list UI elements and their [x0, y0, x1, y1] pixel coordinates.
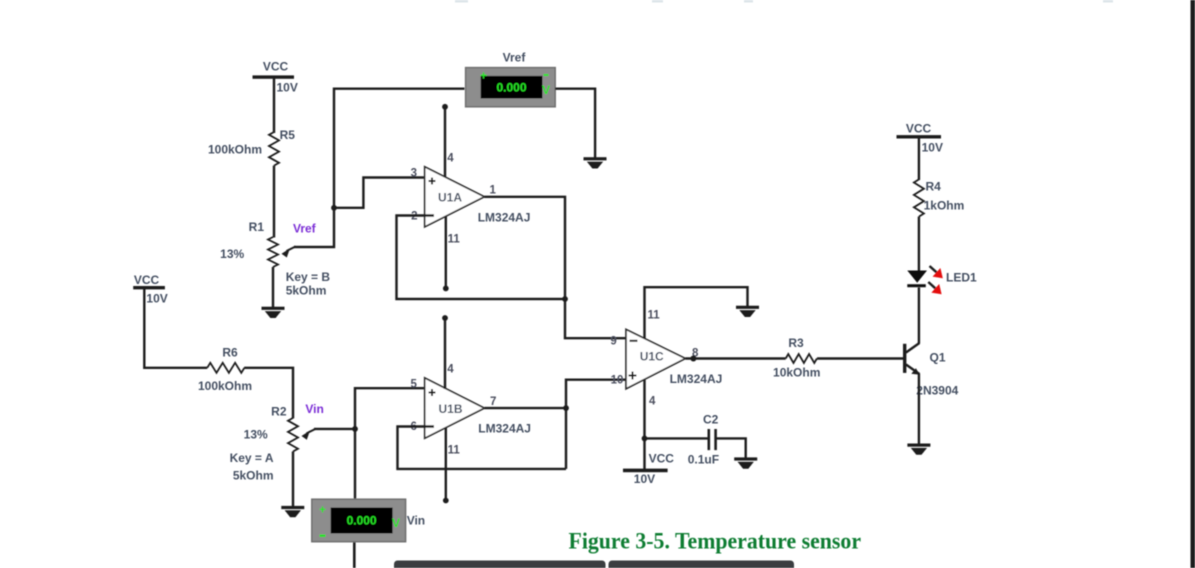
wire VCC to R6 — [144, 289, 207, 368]
svg-text:7: 7 — [490, 396, 496, 408]
wire U1C output to R3 — [685, 357, 785, 359]
wire wiper R1 up to voltmeter — [294, 89, 465, 247]
node output junction — [563, 405, 569, 411]
node wiper junction — [352, 426, 358, 432]
op-amp U1A — [411, 153, 531, 246]
potentiometer R1 — [220, 220, 330, 298]
wire Vin down to voltmeter — [354, 429, 356, 500]
wire R6 to R2 — [244, 368, 293, 419]
resistor R3 — [773, 336, 820, 380]
wire R5 to R1 — [273, 166, 275, 238]
svg-text:Vin: Vin — [305, 402, 323, 416]
resistor R4 — [914, 179, 964, 216]
svg-text:Vref: Vref — [503, 51, 527, 65]
svg-text:VCC: VCC — [134, 273, 160, 287]
node junction on Vref riser — [331, 205, 337, 211]
svg-text:U1C: U1C — [640, 350, 664, 364]
wire Q1 emitter down — [918, 374, 920, 445]
svg-text:R5: R5 — [280, 128, 296, 142]
svg-text:4: 4 — [447, 153, 454, 165]
transistor Q1 — [903, 343, 959, 398]
ground (U1C pin11) — [736, 306, 759, 317]
svg-text:1: 1 — [490, 185, 497, 197]
wire R1 to ground — [272, 267, 274, 308]
svg-text:VCC: VCC — [906, 122, 932, 136]
svg-text:R2: R2 — [271, 405, 287, 419]
svg-text:+: + — [319, 503, 326, 517]
svg-text:LM324AJ: LM324AJ — [478, 421, 531, 435]
ground (Vref meter) — [584, 157, 607, 168]
svg-text:5: 5 — [410, 379, 417, 391]
resistor R6 — [198, 346, 252, 394]
svg-text:V: V — [392, 516, 400, 530]
wire C2 to ground — [716, 438, 746, 458]
svg-text:9: 9 — [610, 336, 616, 348]
resistor R5 — [208, 128, 295, 166]
node U1C output dot — [690, 356, 696, 362]
wire U1B pin11 stub — [445, 428, 447, 501]
node feedback junction — [562, 296, 568, 302]
power VCC (U1C pin4) — [623, 452, 674, 486]
op-amp U1B — [410, 364, 530, 457]
svg-text:4: 4 — [649, 396, 656, 408]
svg-text:Figure 3-5. Temperature sensor: Figure 3-5. Temperature sensor — [569, 529, 862, 555]
ground (C2) — [734, 457, 757, 468]
wire VCC to R5 — [273, 79, 275, 134]
node pin4 stub dot — [442, 315, 448, 321]
svg-text:1kOhm: 1kOhm — [924, 199, 965, 213]
wire U1B pin6 feedback loop — [398, 427, 567, 469]
svg-text:R4: R4 — [926, 180, 942, 194]
wire U1B output to U1C pin10 — [484, 380, 626, 408]
svg-text:0.000: 0.000 — [496, 81, 526, 95]
svg-text:10: 10 — [611, 375, 624, 387]
wire U1A pin4 stub — [444, 107, 446, 177]
faint cut-off text marks at top — [455, 0, 1113, 3]
op-amp U1C — [610, 310, 722, 408]
svg-text:10V: 10V — [277, 81, 298, 95]
svg-text:13%: 13% — [244, 428, 268, 442]
svg-text:13%: 13% — [220, 247, 244, 261]
svg-text:0.1uF: 0.1uF — [688, 453, 719, 467]
svg-text:V: V — [542, 83, 550, 97]
wire Q1 collector up — [918, 288, 920, 344]
svg-text:Q1: Q1 — [930, 351, 946, 365]
wire junction to C2 — [645, 437, 708, 439]
svg-text:U1A: U1A — [438, 191, 462, 205]
voltmeter Vin — [312, 499, 425, 542]
svg-text:5kOhm: 5kOhm — [286, 284, 327, 298]
ground (Q1) — [907, 444, 930, 455]
ground (R1) — [262, 307, 285, 318]
svg-text:11: 11 — [648, 310, 661, 322]
wire VCC to R4 — [918, 138, 920, 180]
svg-text:5kOhm: 5kOhm — [233, 469, 274, 483]
voltmeter Vref — [466, 51, 556, 107]
svg-text:11: 11 — [448, 234, 461, 246]
svg-text:100kOhm: 100kOhm — [198, 379, 252, 393]
svg-text:Key = B: Key = B — [286, 270, 331, 284]
wire voltmeter to ground — [555, 89, 595, 158]
svg-text:0.000: 0.000 — [347, 514, 377, 528]
node pin11 stub dot — [443, 498, 449, 504]
svg-text:4: 4 — [447, 364, 454, 376]
wire U1A pin11 stub — [445, 216, 447, 288]
svg-text:Vref: Vref — [293, 222, 317, 236]
wire wiper R2 to U1B pin5 — [314, 388, 433, 429]
power VCC (top-left) — [253, 60, 298, 95]
svg-text:10V: 10V — [922, 141, 943, 155]
svg-text:Key = A: Key = A — [230, 451, 274, 465]
svg-text:C2: C2 — [703, 413, 719, 427]
wire U1C pin11 to ground — [645, 287, 748, 338]
svg-text:R6: R6 — [222, 346, 238, 360]
svg-text:LM324AJ: LM324AJ — [478, 211, 531, 225]
svg-text:11: 11 — [448, 445, 461, 457]
svg-text:10V: 10V — [634, 472, 655, 486]
svg-text:VCC: VCC — [649, 452, 675, 466]
capacitor C2 — [688, 413, 719, 467]
power VCC (top-right) — [897, 122, 943, 155]
svg-text:U1B: U1B — [438, 402, 462, 416]
wire U1B pin4 stub — [444, 318, 446, 389]
bottom toolbar right — [609, 561, 795, 568]
potentiometer R2 — [230, 405, 316, 483]
svg-text:LM324AJ: LM324AJ — [670, 372, 723, 386]
wire U1A output to U1C pin9 — [484, 197, 626, 338]
svg-text:LED1: LED1 — [946, 271, 977, 285]
ground (R2) — [281, 506, 304, 517]
svg-text:R1: R1 — [249, 220, 265, 234]
LED LED1 — [907, 266, 977, 294]
wire U1A pin2 feedback loop — [397, 216, 566, 300]
wire branch Vref to U1A pin3 — [334, 178, 433, 208]
wire output junction down — [565, 408, 567, 469]
node pin11 stub dot — [443, 286, 449, 292]
wire R4 to LED — [918, 217, 920, 271]
svg-text:+: + — [480, 69, 487, 83]
wire R2 to ground — [292, 452, 294, 507]
page right border — [1191, 0, 1195, 568]
wire below voltmeter — [353, 542, 356, 568]
wire U1C pin4 to VCC — [643, 380, 645, 471]
bottom toolbar left — [394, 561, 606, 568]
wire R3 to Q1 base — [817, 357, 903, 359]
svg-text:VCC: VCC — [263, 60, 289, 74]
node C2 junction — [642, 436, 648, 442]
svg-text:R3: R3 — [788, 336, 804, 350]
node pin4 stub dot — [442, 104, 448, 110]
power VCC (left) — [133, 273, 168, 306]
svg-text:3: 3 — [411, 168, 417, 180]
svg-text:Vin: Vin — [407, 514, 425, 528]
svg-text:10kOhm: 10kOhm — [773, 366, 820, 380]
svg-text:100kOhm: 100kOhm — [208, 143, 262, 157]
svg-text:2N3904: 2N3904 — [916, 384, 958, 398]
svg-text:10V: 10V — [146, 292, 167, 306]
